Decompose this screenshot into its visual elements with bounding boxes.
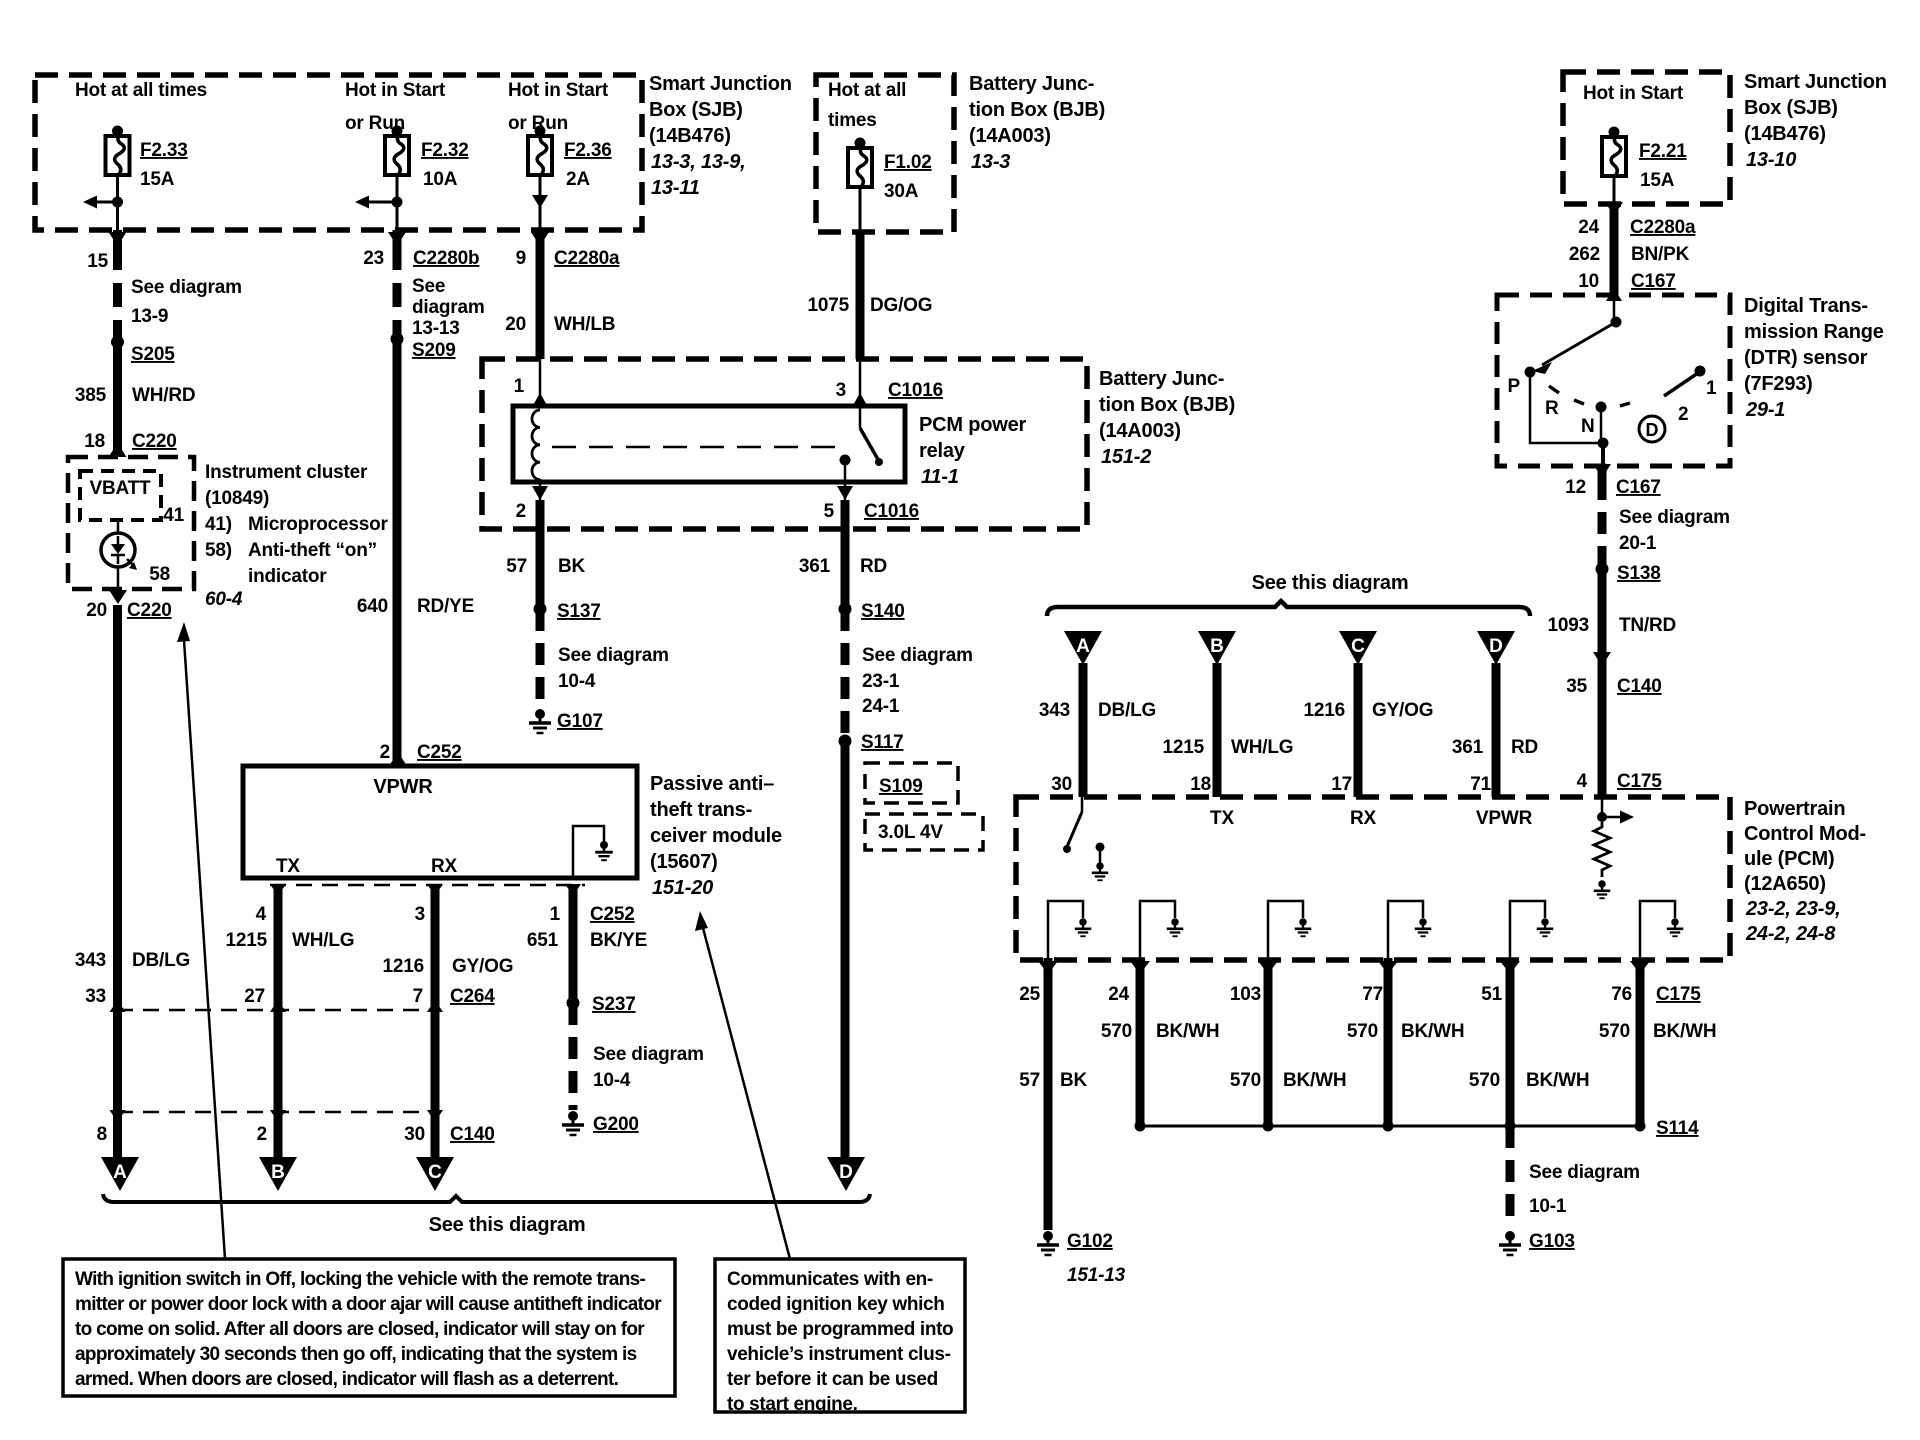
svg-text:570: 570 [1599, 1021, 1630, 1042]
PCM pin 77 connector arrow [1378, 958, 1398, 974]
bracket: See this diagram (bottom) [103, 1194, 870, 1202]
PCM internal ground hook at pin 25 [1048, 901, 1083, 958]
svg-text:BK: BK [558, 556, 586, 577]
label 385 WH/RD [75, 385, 196, 406]
svg-text:C175: C175 [1656, 984, 1701, 1005]
svg-text:See this diagram: See this diagram [1252, 572, 1409, 594]
svg-text:BK: BK [1060, 1070, 1088, 1091]
svg-text:PCM power: PCM power [919, 414, 1027, 436]
DTR output wire to box edge [1601, 443, 1605, 466]
svg-text:570: 570 [1230, 1070, 1261, 1091]
svg-text:C167: C167 [1631, 271, 1676, 292]
label 1093 TN/RD [1548, 615, 1677, 636]
svg-text:151-13: 151-13 [1067, 1265, 1126, 1286]
wire 1215 WH/LG transfer B to PCM pin 18 (TX) [1213, 663, 1222, 797]
svg-text:15A: 15A [1640, 170, 1675, 191]
PCM internal ground hook at pin 76 [1640, 901, 1675, 958]
label 361 RD [799, 556, 887, 577]
junction box: Battery Junction Box (BJB) top dashed outline [816, 75, 954, 232]
connector C140 arrow on wire C [427, 1110, 443, 1122]
svg-text:15: 15 [87, 251, 108, 272]
svg-text:Box (SJB): Box (SJB) [649, 99, 743, 121]
splice S137 [534, 603, 547, 616]
pin 24 connector arrow below SJB right [1605, 202, 1623, 216]
fuse F2.36 [528, 126, 552, 176]
label 343 DB/LG [75, 950, 190, 971]
svg-text:24-1: 24-1 [862, 696, 900, 717]
splice S205 [111, 336, 124, 349]
wire 640 RD/YE solid segment S209 to VPWR [393, 339, 402, 766]
svg-text:VBATT: VBATT [90, 478, 152, 499]
svg-text:10-4: 10-4 [593, 1070, 631, 1091]
wire: F2.32 down to pin 23 [396, 174, 399, 230]
connector C220 pin 18 arrow [109, 443, 127, 457]
label 20 C220 [86, 600, 171, 621]
wire 570 BK/WH pin 24 to S114 [1136, 960, 1145, 1126]
svg-text:R: R [1545, 398, 1559, 419]
svg-text:7: 7 [413, 986, 423, 1007]
svg-text:Battery Junc-: Battery Junc- [1099, 368, 1224, 390]
splice S140 [839, 603, 852, 616]
svg-text:With ignition switch in Off, l: With ignition switch in Off, locking the… [75, 1269, 646, 1290]
DTR wire N to output [1600, 407, 1603, 443]
svg-text:G107: G107 [557, 711, 603, 732]
splice bus S114 horizontal wire [1140, 1125, 1640, 1128]
svg-text:51: 51 [1481, 984, 1502, 1005]
svg-text:tion Box (BJB): tion Box (BJB) [969, 99, 1105, 121]
component box: Instrument cluster dashed outline [68, 457, 194, 589]
relay pin 5 wire and arrow [837, 460, 853, 500]
label pin 7 C264 [413, 986, 496, 1007]
label 2 C252 [380, 742, 462, 763]
wire 57 BK relay to S137 [536, 500, 545, 609]
wire 385 WH/RD solid segment S205 to C220 [113, 342, 122, 450]
svg-text:F1.02: F1.02 [884, 152, 932, 173]
svg-text:361: 361 [1452, 737, 1484, 758]
wire: F2.36 down with arrow to pin 9 [532, 174, 548, 230]
svg-text:Hot in Start: Hot in Start [508, 80, 609, 101]
node 3.0L 4V dashed box [865, 814, 983, 850]
svg-text:C1016: C1016 [864, 501, 919, 522]
svg-text:570: 570 [1101, 1021, 1132, 1042]
svg-text:17: 17 [1331, 774, 1352, 795]
label: See diagram 20-1 [1619, 507, 1730, 554]
svg-text:10-4: 10-4 [558, 671, 596, 692]
svg-text:Instrument cluster: Instrument cluster [205, 462, 368, 483]
svg-text:D: D [1489, 636, 1503, 657]
svg-text:(15607): (15607) [650, 851, 718, 873]
wire 1093 TN/RD solid segment to PCM [1598, 569, 1607, 797]
label: Instrument cluster (10849) 41) Microprocessor 58) Anti-theft on indicator 60-4 [205, 462, 389, 610]
label 1215 WH/LG [226, 930, 355, 951]
svg-text:See diagram: See diagram [1619, 507, 1730, 528]
relay pin 3 wire and arrow [852, 359, 868, 407]
svg-text:(10849): (10849) [205, 488, 269, 509]
svg-text:BK/WH: BK/WH [1283, 1070, 1346, 1091]
label 570 BK/WH (pin 103) [1230, 1070, 1347, 1091]
svg-text:F2.32: F2.32 [421, 140, 469, 161]
svg-text:armed. When doors are closed,: armed. When doors are closed, indicator … [75, 1369, 618, 1390]
svg-text:2: 2 [1678, 404, 1688, 425]
label 35 C140 [1566, 676, 1661, 697]
label 651 BK/YE [527, 930, 647, 951]
svg-text:D: D [839, 1162, 853, 1183]
svg-text:13-3, 13-9,: 13-3, 13-9, [651, 151, 746, 173]
relay: PCM power relay box [513, 406, 905, 482]
svg-text:tion Box (BJB): tion Box (BJB) [1099, 394, 1235, 416]
svg-text:18: 18 [84, 431, 105, 452]
svg-text:57: 57 [1019, 1070, 1040, 1091]
transfer arrow A (top) [1064, 631, 1102, 665]
svg-text:BK/WH: BK/WH [1401, 1021, 1464, 1042]
ground G200 [562, 1111, 584, 1135]
svg-text:10A: 10A [423, 169, 458, 190]
ground symbol inside PCM #4 [1415, 918, 1432, 936]
relay switch contact and arm [840, 406, 884, 466]
svg-text:18: 18 [1190, 774, 1211, 795]
ground symbol inside PCM #1 [1075, 918, 1092, 936]
label 361 RD (right) [1452, 737, 1538, 758]
svg-text:77: 77 [1362, 984, 1383, 1005]
connector C140 dashed line [117, 1111, 440, 1114]
wire 570 BK/WH pin 51 to S114 [1506, 960, 1515, 1126]
svg-text:(14A003): (14A003) [969, 125, 1051, 147]
resistor inside PCM at pin 4 [1594, 822, 1610, 877]
wire 57 BK dashed segment S137 to G107 [536, 609, 545, 708]
wire: branch arrow left of F2.33 [83, 196, 123, 209]
svg-text:coded ignition key which: coded ignition key which [727, 1294, 945, 1315]
DTR contact tick 2 [1620, 403, 1630, 406]
svg-text:D: D [1646, 420, 1659, 440]
svg-text:Hot at all: Hot at all [828, 80, 906, 101]
DTR circled D [1639, 416, 1665, 442]
svg-text:GY/OG: GY/OG [1372, 700, 1433, 721]
svg-text:See diagram: See diagram [862, 645, 973, 666]
svg-text:VPWR: VPWR [1476, 808, 1533, 829]
svg-text:C140: C140 [450, 1124, 495, 1145]
label 570 BK/WH (pin 51) [1469, 1070, 1590, 1091]
svg-text:See diagram: See diagram [131, 277, 242, 298]
svg-text:41): 41) [205, 514, 232, 535]
ground symbol below resistor [1594, 880, 1611, 898]
svg-text:G103: G103 [1529, 1231, 1575, 1252]
wire: F2.33 down to pin 15 [116, 174, 119, 230]
svg-text:BK/WH: BK/WH [1526, 1070, 1589, 1091]
label: Powertrain Control Module (PCM) (12A650) 23-2 23-9 24-2 24-8 [1744, 798, 1866, 945]
svg-text:ceiver module: ceiver module [650, 825, 782, 847]
svg-text:Powertrain: Powertrain [1744, 798, 1845, 820]
svg-text:2: 2 [516, 501, 526, 522]
connector C140 arrow on wire B [270, 1110, 286, 1122]
connector C252 pin 2 arrow [389, 752, 407, 766]
transfer arrow B (bottom) [259, 1157, 297, 1191]
wire 343 DB/LG cluster to transfer A [113, 605, 122, 1157]
svg-text:13-13: 13-13 [412, 318, 460, 339]
PCM pin 25 connector arrow [1038, 958, 1058, 974]
svg-text:4: 4 [1577, 771, 1588, 792]
wire: internal ground link inside module [573, 826, 604, 876]
connector C252 pin 1 arrow [565, 884, 581, 896]
splice dot S114 at pin 24 [1135, 1121, 1146, 1132]
connector C140 arrow on TN/RD wire [1593, 652, 1611, 666]
svg-text:C2280b: C2280b [413, 248, 479, 269]
svg-text:20-1: 20-1 [1619, 533, 1657, 554]
svg-text:11-1: 11-1 [921, 466, 959, 488]
label 1215 WH/LG (right) [1163, 737, 1294, 758]
relay linkage dashed line [552, 446, 845, 449]
svg-text:S117: S117 [861, 732, 904, 753]
svg-text:23-2, 23-9,: 23-2, 23-9, [1745, 898, 1841, 920]
wire 570 BK/WH pin 77 to S114 [1384, 960, 1393, 1126]
node VBATT dashed box [80, 471, 161, 520]
label 570 BK/WH (pin 77) [1347, 1021, 1465, 1042]
label: See diagram 10-1 [1529, 1162, 1640, 1217]
label 570 BK/WH (pin 24) [1101, 1021, 1220, 1042]
svg-text:58): 58) [205, 540, 232, 561]
svg-text:BK/YE: BK/YE [590, 930, 647, 951]
label: Battery Junction Box (BJB) (14A003) 13-3 [969, 73, 1105, 173]
svg-text:Hot at all times: Hot at all times [75, 80, 207, 101]
connector C220 pin 20 arrow [109, 590, 127, 604]
label F2.33 15A [140, 140, 188, 190]
svg-text:S137: S137 [557, 601, 601, 622]
splice dot S114 at pin 76 [1635, 1121, 1646, 1132]
svg-text:Smart Junction: Smart Junction [649, 73, 792, 95]
svg-text:10: 10 [1578, 271, 1599, 292]
svg-text:262: 262 [1569, 244, 1600, 265]
svg-text:23-1: 23-1 [862, 671, 900, 692]
ground symbol near pin 30 [1092, 862, 1109, 880]
PCM internal ground hook at pin 103 [1268, 901, 1303, 958]
svg-text:C175: C175 [1617, 771, 1662, 792]
label 18 C220 [84, 431, 176, 452]
svg-text:RD: RD [860, 556, 887, 577]
callout arrow from note box to module [695, 911, 790, 1259]
transfer arrow C (bottom) [416, 1157, 454, 1191]
svg-text:F2.21: F2.21 [1639, 141, 1687, 162]
wire: F1.02 to BJB box edge [859, 186, 862, 232]
relay coil [532, 410, 540, 480]
label F2.36 2A [564, 140, 612, 190]
label: PCM power relay 11-1 [919, 414, 1027, 488]
svg-text:1: 1 [514, 376, 525, 397]
svg-text:relay: relay [919, 440, 966, 462]
PCM pin 103 connector arrow [1258, 958, 1278, 974]
svg-text:C: C [1351, 636, 1365, 657]
svg-text:B: B [271, 1162, 285, 1183]
wire 361 RD S117 to transfer D [841, 741, 850, 1157]
label: See diagram 10-4 (G200) [593, 1044, 704, 1091]
wire 385 WH/RD dashed segment pin15 to S205 [113, 246, 122, 342]
svg-text:2: 2 [380, 742, 390, 763]
svg-text:1: 1 [550, 904, 561, 925]
svg-text:1: 1 [1706, 378, 1717, 399]
label: Hot in Start or Run (F2.32) [345, 80, 446, 134]
PCM internal ground hook at pin 77 [1388, 901, 1423, 958]
wire 262 BN/PK to DTR [1610, 204, 1619, 295]
splice dot S114 at pin 51 [1505, 1121, 1516, 1132]
label 10 C167 [1578, 271, 1675, 292]
svg-text:C1016: C1016 [888, 380, 943, 401]
splice S117 [839, 735, 852, 748]
label 262 BN/PK [1569, 244, 1690, 265]
svg-text:2A: 2A [566, 169, 590, 190]
junction box: Smart Junction Box (SJB) top-left dashed outline [35, 75, 642, 230]
svg-text:C140: C140 [1617, 676, 1662, 697]
DTR wire P to output [1530, 372, 1603, 443]
wire 1075 DG/OG BJB to relay [856, 232, 865, 359]
ground G103 [1499, 1231, 1521, 1255]
label 24 C2280a [1578, 217, 1696, 238]
svg-text:S237: S237 [592, 994, 636, 1015]
svg-text:1216: 1216 [383, 956, 424, 977]
fuse F1.02 [848, 138, 872, 188]
pin 15 connector arrow below SJB [109, 230, 127, 246]
callout arrow from note box to C220 [177, 622, 225, 1259]
svg-text:TX: TX [1210, 808, 1234, 829]
label 20 WH/LB [505, 314, 615, 335]
PCM internal ground hook at pin 51 [1510, 901, 1545, 958]
splice dot S114 at pin 77 [1383, 1121, 1394, 1132]
svg-text:2: 2 [257, 1124, 267, 1145]
wire 640 RD/YE dashed segment to S209 [393, 246, 402, 339]
PCM pin 24 connector arrow [1130, 958, 1150, 974]
wire 570 BK/WH pin 103 to S114 [1264, 960, 1273, 1126]
svg-text:S209: S209 [412, 340, 456, 361]
svg-text:F2.36: F2.36 [564, 140, 612, 161]
DTR selector arm to P [1532, 322, 1616, 374]
wire VBATT to indicator [117, 520, 120, 533]
label: Smart Junction Box (SJB) (14B476) 13-10 [1744, 71, 1887, 171]
svg-text:S205: S205 [131, 344, 175, 365]
svg-text:RD: RD [1511, 737, 1538, 758]
svg-text:WH/LG: WH/LG [292, 930, 354, 951]
PCM internal ground contact near pin 30 [1096, 843, 1105, 865]
svg-text:C220: C220 [127, 600, 172, 621]
svg-text:57: 57 [506, 556, 527, 577]
svg-text:See: See [412, 276, 445, 297]
connector C264 dashed line [117, 1009, 440, 1012]
svg-text:A: A [113, 1162, 127, 1183]
svg-text:ule (PCM): ule (PCM) [1744, 848, 1834, 870]
svg-text:24: 24 [1108, 984, 1129, 1005]
svg-text:35: 35 [1566, 676, 1587, 697]
svg-text:13-3: 13-3 [971, 151, 1010, 173]
label: See diagram 13-13 [412, 276, 485, 339]
svg-text:to start engine.: to start engine. [727, 1394, 858, 1415]
svg-text:30A: 30A [884, 181, 919, 202]
svg-text:C264: C264 [450, 986, 495, 1007]
svg-text:25: 25 [1019, 984, 1040, 1005]
svg-text:(7F293): (7F293) [1744, 373, 1813, 395]
DTR input wire and pivot [1611, 295, 1622, 328]
svg-text:(12A650): (12A650) [1744, 873, 1826, 895]
junction box: Smart Junction Box (SJB) top-right dashed outline [1563, 72, 1730, 204]
svg-text:C2280a: C2280a [1630, 217, 1696, 238]
splice dot S114 at pin 103 [1263, 1121, 1274, 1132]
svg-text:60-4: 60-4 [205, 589, 243, 610]
svg-text:13-9: 13-9 [131, 306, 168, 327]
label G102 151-13 [1067, 1231, 1126, 1286]
node S109 dashed box [865, 763, 958, 803]
relay pin 1 wire and arrow [532, 359, 548, 407]
svg-text:TX: TX [276, 856, 300, 877]
svg-text:1093: 1093 [1548, 615, 1589, 636]
svg-text:Passive anti–: Passive anti– [650, 773, 774, 795]
label pin 30 C140 [404, 1124, 494, 1145]
component box: Passive anti-theft transceiver module (VPWR) [243, 766, 637, 878]
svg-text:41: 41 [163, 505, 184, 526]
label 23 C2280b [363, 248, 479, 269]
label: Digital Transmission Range (DTR) sensor (7F293) 29-1 [1744, 295, 1884, 421]
label relay pin 3 C1016 [836, 380, 943, 401]
svg-text:Battery Junc-: Battery Junc- [969, 73, 1094, 95]
connector C264 arrow on wire A [110, 1000, 126, 1012]
label: Hot at all times (F1.02) [828, 80, 906, 131]
svg-text:5: 5 [824, 501, 835, 522]
svg-text:DB/LG: DB/LG [132, 950, 190, 971]
svg-text:3.0L 4V: 3.0L 4V [878, 822, 943, 843]
connector C252 pin 3 arrow [427, 884, 443, 896]
transfer arrow D (top) [1477, 631, 1515, 665]
svg-text:10-1: 10-1 [1529, 1196, 1567, 1217]
transfer arrow C (top) [1339, 631, 1377, 665]
svg-text:G200: G200 [593, 1114, 639, 1135]
label 1216 GY/OG [383, 956, 514, 977]
svg-text:343: 343 [1039, 700, 1070, 721]
label: See diagram 13-9 [131, 277, 242, 327]
wire 570 BK/WH pin 76 to S114 [1636, 960, 1645, 1126]
svg-text:(14B476): (14B476) [649, 125, 731, 147]
label: Hot in Start or Run (F2.36) [508, 80, 609, 134]
svg-text:DG/OG: DG/OG [870, 295, 932, 316]
svg-text:151-20: 151-20 [652, 877, 713, 899]
label 4 C175 [1577, 771, 1663, 792]
svg-text:C252: C252 [417, 742, 462, 763]
svg-text:DB/LG: DB/LG [1098, 700, 1156, 721]
DTR contact tick P-R [1549, 386, 1559, 393]
PCM pin 51 connector arrow [1500, 958, 1520, 974]
svg-text:Box (SJB): Box (SJB) [1744, 97, 1838, 119]
label F2.21 15A [1639, 141, 1687, 191]
svg-text:F2.33: F2.33 [140, 140, 188, 161]
PCM pin 76 connector arrow [1630, 958, 1650, 974]
svg-text:VPWR: VPWR [373, 776, 433, 798]
wire 20 WH/LB to relay [536, 246, 545, 359]
module box: Powertrain Control Module (PCM) dashed outline [1016, 797, 1730, 960]
svg-text:23: 23 [363, 248, 384, 269]
svg-text:BN/PK: BN/PK [1631, 244, 1690, 265]
svg-text:30: 30 [1051, 774, 1072, 795]
wire 1216 GY/OG (RX) to transfer C [431, 885, 440, 1157]
junction box: Battery Junction Box (BJB) dashed outline around relay [482, 359, 1087, 529]
svg-text:Smart Junction: Smart Junction [1744, 71, 1887, 93]
svg-text:TN/RD: TN/RD [1619, 615, 1676, 636]
svg-text:vehicle’s instrument clus-: vehicle’s instrument clus- [727, 1344, 951, 1365]
wire indicator to cluster box edge [117, 567, 120, 593]
wire 1215 WH/LG (TX) to transfer B [274, 885, 283, 1157]
ground symbol inside PCM #2 [1167, 918, 1184, 936]
svg-text:See diagram: See diagram [1529, 1162, 1640, 1183]
svg-text:3: 3 [836, 380, 846, 401]
PCM internal ground hook at pin 24 [1140, 901, 1175, 958]
label: Smart Junction Box (SJB) (14B476) 13-3, 13-9, 13-11 [649, 73, 792, 199]
svg-text:Communicates with en-: Communicates with en- [727, 1269, 933, 1290]
svg-text:Anti-theft “on”: Anti-theft “on” [248, 540, 377, 561]
wire 343 DB/LG transfer A to PCM pin 30 [1079, 663, 1088, 797]
svg-text:15A: 15A [140, 169, 175, 190]
svg-text:mission Range: mission Range [1744, 321, 1884, 343]
